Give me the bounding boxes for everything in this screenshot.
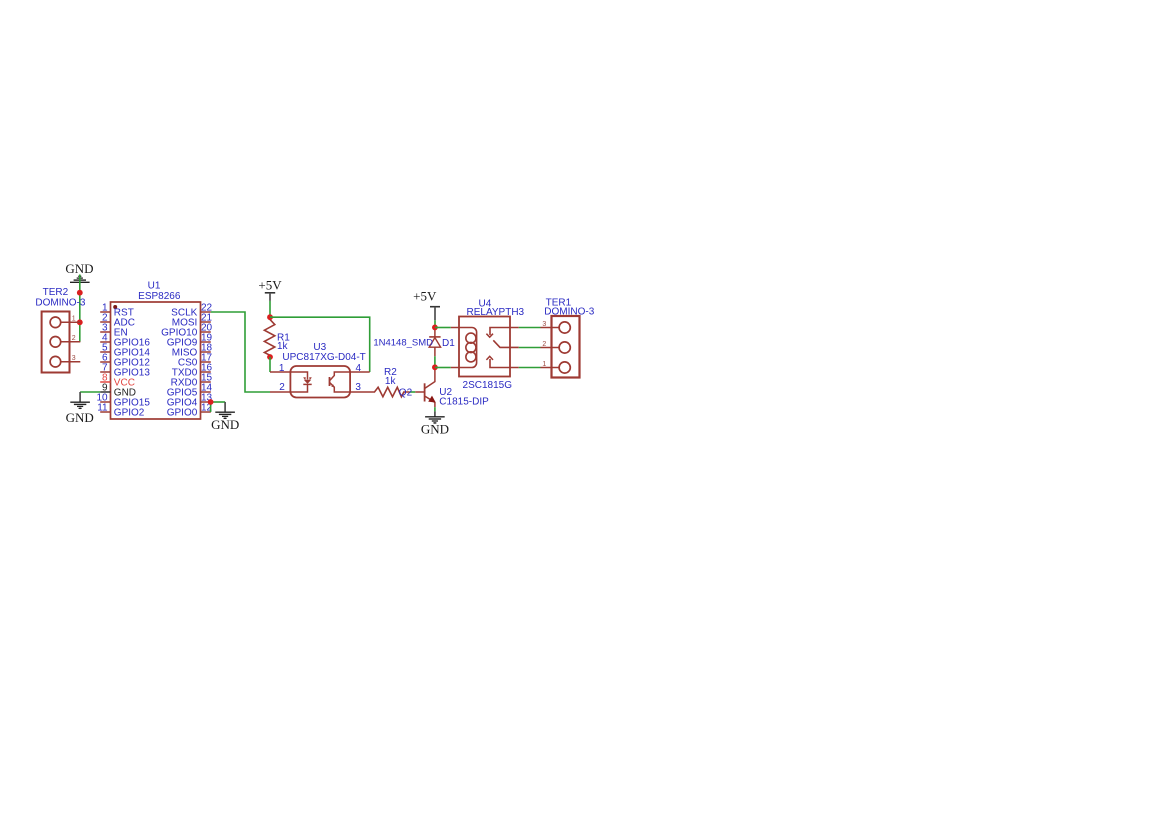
svg-text:GND: GND bbox=[66, 410, 94, 425]
svg-text:GND: GND bbox=[65, 261, 93, 276]
svg-text:+5V: +5V bbox=[413, 289, 437, 304]
svg-text:Q2: Q2 bbox=[399, 388, 413, 399]
svg-text:DOMINO-3: DOMINO-3 bbox=[35, 297, 85, 308]
svg-text:2: 2 bbox=[72, 335, 76, 342]
svg-text:D1: D1 bbox=[442, 338, 455, 349]
svg-text:2: 2 bbox=[542, 341, 546, 348]
svg-text:1: 1 bbox=[279, 363, 285, 374]
svg-text:C1815-DIP: C1815-DIP bbox=[439, 396, 489, 407]
svg-text:1k: 1k bbox=[277, 341, 289, 352]
svg-text:UPC817XG-D04-T: UPC817XG-D04-T bbox=[282, 352, 365, 363]
svg-text:11: 11 bbox=[97, 403, 108, 414]
svg-text:2SC1815G: 2SC1815G bbox=[463, 380, 513, 391]
svg-text:2: 2 bbox=[279, 382, 285, 393]
svg-text:4: 4 bbox=[356, 363, 362, 374]
svg-text:3: 3 bbox=[542, 321, 546, 328]
svg-text:+5V: +5V bbox=[258, 278, 282, 293]
svg-text:1N4148_SMD: 1N4148_SMD bbox=[373, 337, 433, 348]
svg-text:3: 3 bbox=[72, 355, 76, 362]
svg-text:GND: GND bbox=[421, 422, 449, 437]
svg-text:GPIO0: GPIO0 bbox=[167, 408, 198, 419]
svg-text:1: 1 bbox=[542, 361, 546, 368]
svg-text:U1: U1 bbox=[148, 281, 161, 292]
svg-text:ESP8266: ESP8266 bbox=[138, 291, 181, 302]
svg-text:1: 1 bbox=[72, 316, 76, 323]
svg-text:1k: 1k bbox=[385, 376, 397, 387]
svg-text:GPIO2: GPIO2 bbox=[114, 408, 145, 419]
svg-text:GND: GND bbox=[211, 417, 239, 432]
